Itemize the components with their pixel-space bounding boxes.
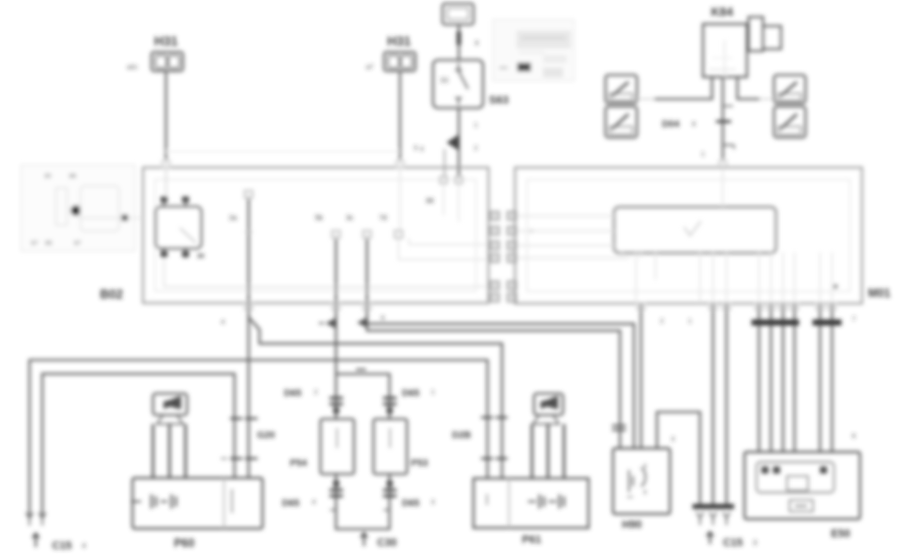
svg-text:6: 6 [381,315,385,322]
tweeter wires right [532,424,564,478]
svg-text:87: 87 [31,240,39,247]
relay K84 [703,5,781,77]
chevron terminals C15 right [697,512,704,525]
svg-text:C30: C30 [377,537,397,549]
svg-text:P60: P60 [174,538,194,550]
wire B: B02 to P54 and bridge to P53 [335,303,337,419]
svg-text:2: 2 [660,318,664,325]
svg-text:1: 1 [431,389,435,396]
svg-text:D04: D04 [662,119,680,130]
svg-text:a2c: a2c [127,64,138,71]
svg-text:1: 1 [688,318,692,325]
svg-text:8: 8 [475,40,479,47]
pin squares at top edge of boxes [162,161,170,168]
connector D65 marks bottom [333,481,339,487]
tweeter wires left [153,424,186,478]
chevron terminals C15 left [26,513,33,526]
wires M01 to C15 right [713,303,727,507]
svg-text:6: 6 [852,433,856,440]
wire K84 left branch to speakers [654,77,712,99]
svg-text:4: 4 [312,499,316,506]
svg-text:K84: K84 [711,5,733,19]
faint highlight line [166,151,400,153]
svg-text:2: 2 [314,389,318,396]
svg-text:C15: C15 [723,537,743,549]
speaker box rear right bottom [774,107,806,138]
ground tick C15 right [707,532,714,544]
svg-text:3: 3 [753,540,757,547]
svg-text:1: 1 [701,151,705,158]
wire H31 left to B02 [165,71,167,168]
svg-text:M01: M01 [868,288,891,300]
midrange P54 [321,419,355,474]
pin squares at bottom edge of M01 [637,303,836,310]
pins of S63 wires into B02 [440,177,447,184]
svg-text:2|1: 2|1 [440,77,449,84]
svg-text:H31: H31 [387,34,411,49]
midrange P53 [374,419,408,474]
wires P54/P53 down to C30 [336,474,390,529]
wire S63 down with branch [458,108,460,177]
splice bar C15 right [693,504,735,509]
wire D: branch to H90 [366,324,634,449]
connector H31 left [127,34,183,72]
loudspeaker P60 box [131,478,263,529]
svg-text:86: 86 [69,173,77,180]
connector D20 marks [230,417,258,419]
svg-text:H90: H90 [622,519,642,531]
wire: left inner loop to C15 left [42,374,234,516]
wire H31 right to B02 [399,71,401,168]
supply box top [443,4,474,25]
tweeter icon left [153,394,187,425]
speaker box rear right top [774,75,806,103]
svg-text:D65: D65 [284,388,302,399]
svg-text:D65: D65 [282,498,300,509]
dashboard E50 box [745,452,861,519]
svg-text:P54: P54 [290,458,308,469]
switch S63 [433,60,483,108]
svg-text:8: 8 [692,121,696,128]
control unit B02 box [143,168,489,304]
wire K84 right branch to speakers [737,77,760,99]
control unit M01 box [515,168,862,304]
amplifier H90 box [613,448,670,514]
svg-text:87: 87 [74,240,82,247]
wires M01 to E50 [759,303,795,452]
svg-text:P53: P53 [411,458,428,469]
svg-text:H31: H31 [154,34,178,49]
svg-text:P61: P61 [522,534,541,546]
svg-text:5: 5 [414,145,418,152]
ground tick C15 left [33,534,40,548]
svg-text:D65: D65 [402,498,420,509]
svg-text:E50: E50 [831,528,850,540]
svg-text:2: 2 [474,145,478,152]
ground C30 [361,533,368,546]
svg-text:3c: 3c [346,215,354,222]
module box inside M01 [614,207,776,258]
wire: left outer loop to C15 left [30,360,488,516]
svg-text:D65: D65 [402,388,420,399]
svg-text:G20: G20 [257,430,275,441]
connector D65 marks top [330,398,344,404]
splice bars on E50 wires [752,320,800,326]
junction arrows [319,322,324,324]
wire K84 down to M01 [722,77,724,167]
connector D04 mark [716,120,731,123]
svg-text:88: 88 [426,198,434,205]
svg-text:3: 3 [431,499,435,506]
svg-text:a7: a7 [366,64,374,71]
connector H31 right [366,34,416,72]
svg-text:D2B: D2B [452,430,471,441]
pin squares at bottom edge of B02 [245,303,371,310]
svg-text:1: 1 [474,122,478,129]
svg-text:S63: S63 [489,95,509,107]
speaker box rear left bottom [606,107,638,138]
connector mark near H90 [612,426,626,431]
svg-text:3: 3 [420,146,424,153]
svg-text:2a: 2a [229,215,237,222]
wire supply to S63 with fuse mark [458,25,460,61]
tweeter icon right [533,394,563,425]
wire H90 to C15 right [657,412,700,507]
connector D2B marks right speaker [481,416,508,418]
wire E: M01 to H90 [640,303,642,448]
svg-text:7d: 7d [379,215,387,222]
wire A: B02 to right woofer [248,303,250,478]
speaker box rear left top [606,75,638,103]
svg-text:C15: C15 [52,540,72,552]
connector pin columns between B02 and M01 [491,212,517,302]
wire C: B02 to H90 [367,303,620,448]
svg-text:85: 85 [45,240,53,247]
svg-text:3: 3 [671,436,675,443]
loudspeaker P61 box [474,478,589,528]
wire pin to bottom (left woofer feed) [248,198,250,303]
svg-text:30: 30 [44,173,52,180]
legend box left (faded) [21,165,143,251]
relay inside B02 [156,197,205,261]
svg-text:5b: 5b [315,215,323,222]
svg-text:B02: B02 [100,288,123,302]
svg-text:7: 7 [852,316,856,323]
svg-text:4: 4 [82,543,86,550]
light wires inside M01 [516,216,630,258]
legend box top (faded) [493,20,575,82]
light wires inside B02 [165,168,167,197]
svg-text:30: 30 [197,253,205,260]
svg-text:4: 4 [221,319,225,326]
